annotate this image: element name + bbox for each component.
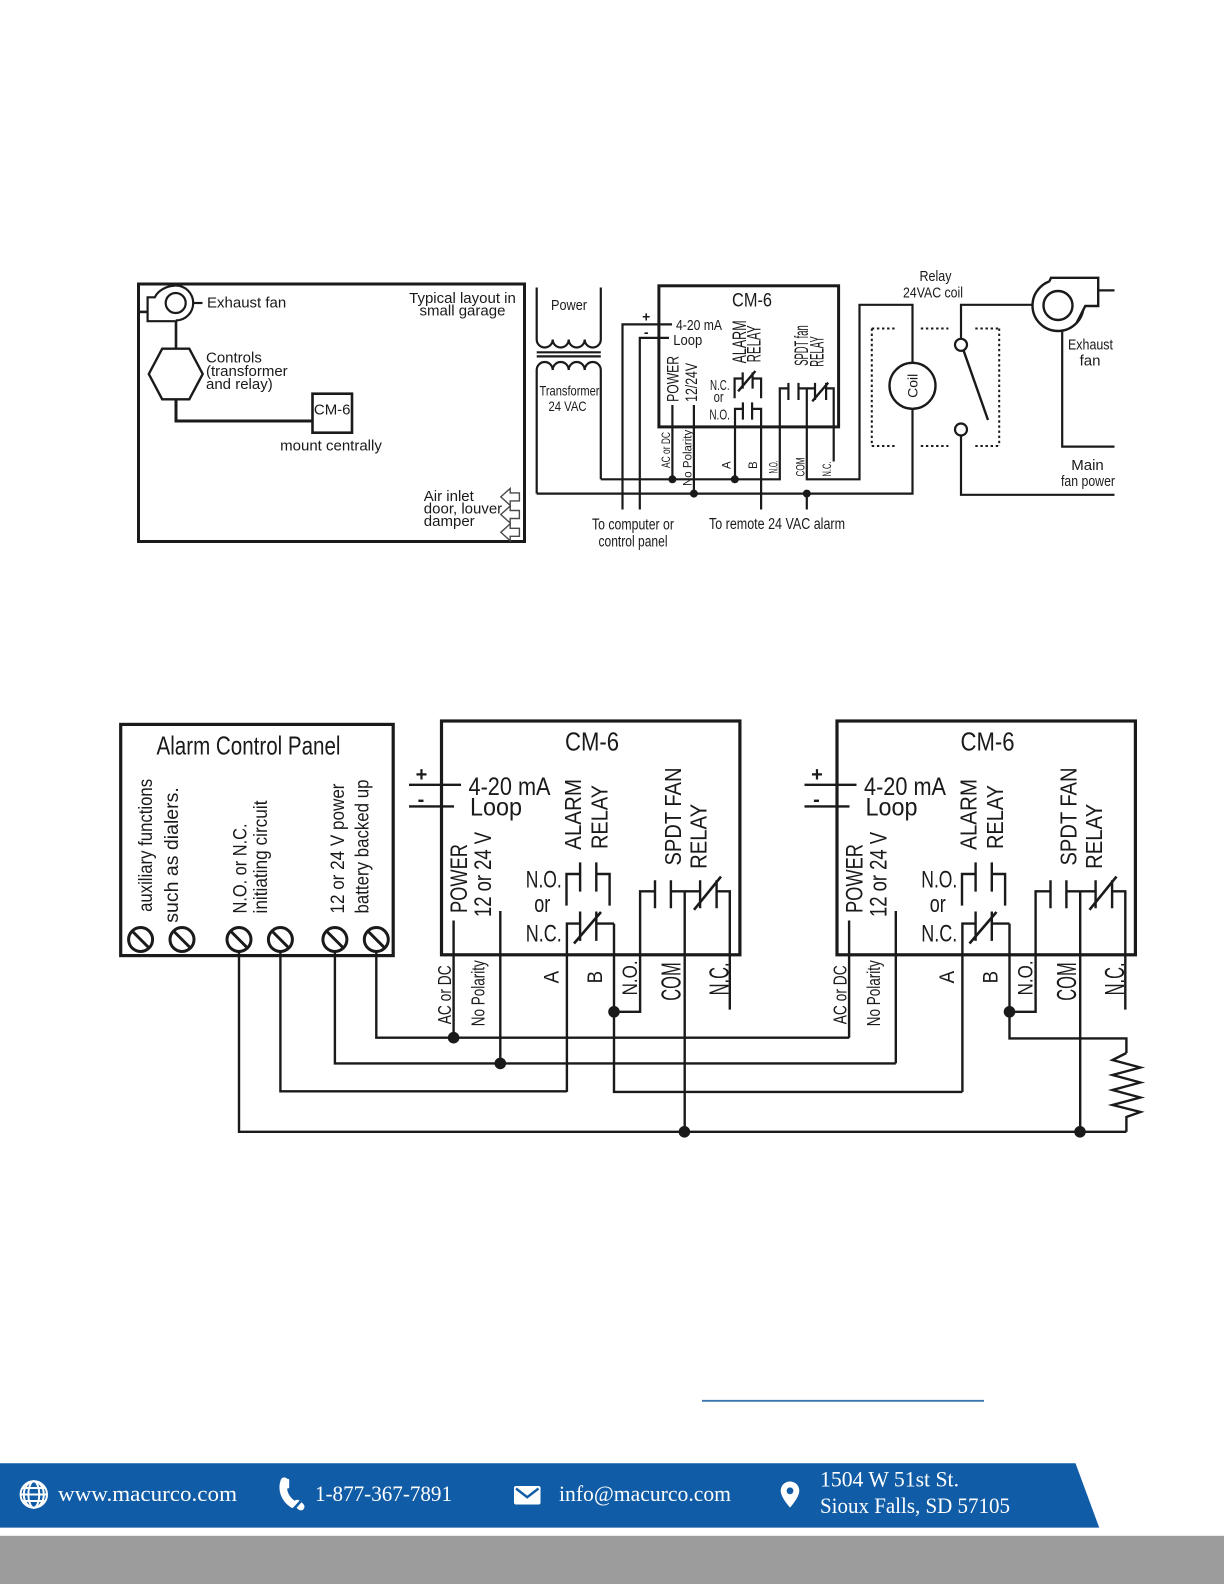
svg-text:CM-6: CM-6 xyxy=(732,291,772,312)
SPDT fan relay contacts (U1) xyxy=(780,383,834,427)
svg-text:fan: fan xyxy=(1080,353,1101,370)
label: 1504 W 51st St. / Sioux Falls, SD 57105 xyxy=(820,1467,1010,1518)
junction dot H2/No-Polarity xyxy=(690,490,698,498)
label: 4-20 mA Loop xyxy=(673,317,722,349)
wire: 4-20 mA loop + lead to computer xyxy=(623,324,673,509)
svg-text:N.C.: N.C. xyxy=(822,462,834,477)
pin A wire (U1) xyxy=(734,427,736,479)
terminal screw 2 xyxy=(170,928,194,952)
svg-text:auxiliary functions: auxiliary functions xyxy=(135,779,157,912)
exhaust fan blower icon (garage) xyxy=(148,286,194,322)
junction dot No-Polarity U2 xyxy=(495,1058,507,1070)
terminal screw 5 xyxy=(323,928,347,952)
svg-text:initiating circuit: initiating circuit xyxy=(250,800,272,914)
svg-text:Relay: Relay xyxy=(920,268,952,285)
wire: switch bottom to main fan power xyxy=(961,436,1115,495)
svg-text:12/24V: 12/24V xyxy=(682,362,701,401)
label: 1-877-367-7891 xyxy=(315,1481,452,1506)
junction dot H1/AC-DC xyxy=(668,475,676,483)
svg-text:Exhaust: Exhaust xyxy=(1068,337,1114,354)
transformer T1 primary winding xyxy=(537,340,601,348)
label: Typical layout in small garage xyxy=(409,290,516,320)
pin AC or DC wire (U1) xyxy=(671,405,673,479)
svg-text:N.O.: N.O. xyxy=(709,407,730,424)
label: www.macurco.com xyxy=(58,1481,238,1506)
relay switch bottom contact circle xyxy=(955,424,967,436)
wire: switch top to exhaust fan xyxy=(961,305,1032,339)
location pin icon xyxy=(781,1482,800,1508)
transformer T1 core xyxy=(537,352,601,356)
transformer T1 secondary winding xyxy=(537,362,601,370)
svg-text:-: - xyxy=(644,324,649,340)
label: To remote 24 VAC alarm xyxy=(709,516,845,533)
label: POWER 12/24V (rotated) xyxy=(664,356,702,402)
svg-text:N.O.: N.O. xyxy=(768,461,780,474)
wire: screw5 to No-Polarity bus (both units) xyxy=(335,950,896,1063)
svg-text:mount centrally: mount centrally xyxy=(280,438,382,455)
globe icon xyxy=(21,1481,47,1507)
pin B wire (U1) to remote alarm xyxy=(760,427,762,510)
CM-6 sensor box (garage) xyxy=(313,394,353,433)
CM-6 unit U2 (middle) xyxy=(409,721,740,1132)
junction dot bottom bus / COM U2 xyxy=(679,1126,691,1138)
wire fan to controls hexagon xyxy=(175,321,178,349)
terminal screw 6 xyxy=(364,928,388,952)
svg-text:1504 W 51st St.: 1504 W 51st St. xyxy=(820,1467,959,1492)
svg-text:24VAC coil: 24VAC coil xyxy=(903,285,963,302)
svg-text:Power: Power xyxy=(551,297,587,314)
envelope icon xyxy=(514,1486,541,1505)
svg-text:B: B xyxy=(748,461,760,469)
garage enclosure box xyxy=(139,284,525,542)
label: Main fan power xyxy=(1061,457,1115,490)
exhaust fan blower icon (right) xyxy=(1033,278,1099,331)
relay coil circle xyxy=(890,363,936,409)
blue footer band xyxy=(0,1463,1099,1527)
svg-text:24 VAC: 24 VAC xyxy=(549,398,587,414)
label: Exhaust fan xyxy=(207,295,286,312)
label: Controls (transformer and relay) xyxy=(206,350,288,394)
svg-text:AC or DC: AC or DC xyxy=(661,432,673,468)
svg-text:info@macurco.com: info@macurco.com xyxy=(559,1481,731,1506)
svg-text:CM-6: CM-6 xyxy=(314,402,351,419)
terminal screw 3 xyxy=(227,928,251,952)
wire: transformer right secondary lead down to node H1 xyxy=(600,370,602,479)
terminal labels under U1 (rotated) xyxy=(661,430,834,486)
CM-6 unit U3 (right) xyxy=(805,721,1136,1132)
gray footer band xyxy=(0,1536,1224,1584)
svg-text:and relay): and relay) xyxy=(206,376,273,393)
thin divider line xyxy=(702,1400,984,1402)
svg-text:small garage: small garage xyxy=(420,303,506,320)
svg-text:Loop: Loop xyxy=(673,332,702,349)
label: mount centrally xyxy=(280,438,382,455)
resistor R1 xyxy=(1113,1053,1141,1132)
transformer T1 primary leads xyxy=(537,288,601,340)
label: info@macurco.com xyxy=(559,1481,731,1506)
panel rotated labels xyxy=(135,779,373,923)
svg-text:RELAY: RELAY xyxy=(807,336,828,367)
svg-text:1-877-367-7891: 1-877-367-7891 xyxy=(315,1481,452,1506)
label: SPDT fan RELAY (rotated, U1) xyxy=(792,325,828,366)
label: Transformer 24 VAC xyxy=(540,382,600,414)
wire stub down to remote alarm label xyxy=(806,494,808,510)
pin N.O. wire (U1) + node H1 bus xyxy=(601,427,780,479)
svg-text:Coil: Coil xyxy=(905,374,921,398)
air inlet arrow 1 xyxy=(501,488,520,505)
controls hexagon (transformer and relay) xyxy=(149,349,203,400)
label: Air inlet door, louver, damper xyxy=(424,488,506,530)
terminal screw 4 xyxy=(268,928,292,952)
svg-text:or: or xyxy=(714,389,724,406)
svg-text:POWER: POWER xyxy=(664,356,683,402)
air inlet arrow 2 xyxy=(501,506,520,523)
svg-text:battery backed up: battery backed up xyxy=(352,779,374,913)
junction dot H2/remote-alarm stub xyxy=(803,490,811,498)
wire: screw3 to bottom bus xyxy=(239,950,1126,1132)
relay switch top contact circle xyxy=(955,339,967,351)
junction dot bottom bus / COM U3 xyxy=(1074,1126,1086,1138)
svg-text:A: A xyxy=(722,461,734,469)
svg-text:Transformer: Transformer xyxy=(540,382,600,398)
wire: transformer left secondary lead down to node H2 xyxy=(536,370,538,494)
pin No Polarity wire (U1) xyxy=(693,405,695,494)
terminal screw 1 xyxy=(129,928,153,952)
wire: fan bottom to main fan power xyxy=(1062,331,1114,447)
svg-text:N.O. or N.C.: N.O. or N.C. xyxy=(230,824,252,914)
relay K1 dashed outline xyxy=(872,329,999,447)
junction dot AC/DC U2 xyxy=(448,1032,460,1044)
label: Relay 24VAC coil xyxy=(903,268,963,302)
svg-text:such as dialers.: such as dialers. xyxy=(161,787,183,922)
svg-text:fan power: fan power xyxy=(1061,473,1115,490)
label: + xyxy=(642,309,650,325)
wire stub fan to label xyxy=(193,302,202,304)
label: Exhaust fan (right) xyxy=(1068,337,1114,370)
air inlet arrow 3 xyxy=(501,524,520,541)
wire: B terminal U2 over to A terminal U3 xyxy=(614,1012,962,1092)
wire stub from fan duct to right xyxy=(1098,289,1114,291)
svg-text:Sioux Falls, SD 57105: Sioux Falls, SD 57105 xyxy=(820,1493,1010,1518)
label: - xyxy=(644,324,649,340)
junction dot H1/A xyxy=(731,475,739,483)
alarm relay N.O. contact (U1) xyxy=(735,402,761,427)
wire: COM pin down and over to relay coil top xyxy=(807,305,913,480)
alarm relay N.C. contact (U1) xyxy=(735,371,762,398)
pin N.C. stub wire (U1) xyxy=(833,427,835,462)
svg-text:control panel: control panel xyxy=(599,534,668,551)
svg-text:+: + xyxy=(642,309,650,325)
node H2 bus wire: transformer left to coil bottom xyxy=(537,409,913,494)
svg-text:damper: damper xyxy=(424,513,475,530)
svg-text:COM: COM xyxy=(795,458,807,477)
label: To computer or control panel xyxy=(592,517,674,551)
label: N.C. or N.O. xyxy=(709,377,730,424)
relay switch blade xyxy=(964,350,989,420)
CM-6 controller U1 box xyxy=(659,286,839,427)
svg-text:To computer or: To computer or xyxy=(592,517,674,534)
wire: screw6 to AC-or-DC bus (both units) xyxy=(376,950,849,1038)
phone icon xyxy=(283,1479,301,1511)
label: ALARM RELAY (rotated, U1) xyxy=(730,320,765,363)
svg-text:RELAY: RELAY xyxy=(744,325,765,362)
svg-text:To remote 24 VAC alarm: To remote 24 VAC alarm xyxy=(709,516,845,533)
wire: screw4 to A terminal U2 xyxy=(280,950,567,1091)
svg-text:www.macurco.com: www.macurco.com xyxy=(58,1481,238,1506)
label: Power xyxy=(551,297,587,314)
wire stub box edge to fan duct xyxy=(139,311,148,314)
wire hexagon to CM-6 sensor xyxy=(176,399,313,421)
svg-text:No Polarity: No Polarity xyxy=(683,430,695,486)
wire: B terminal U3 to resistor top xyxy=(1010,1012,1127,1053)
wire: 4-20 mA loop - lead to computer xyxy=(640,338,669,510)
Alarm Control Panel box xyxy=(121,724,394,955)
svg-text:Main: Main xyxy=(1071,457,1104,474)
svg-text:12 or 24 V power: 12 or 24 V power xyxy=(327,783,349,913)
svg-text:Alarm Control Panel: Alarm Control Panel xyxy=(157,731,341,761)
svg-text:Exhaust fan: Exhaust fan xyxy=(207,295,286,312)
